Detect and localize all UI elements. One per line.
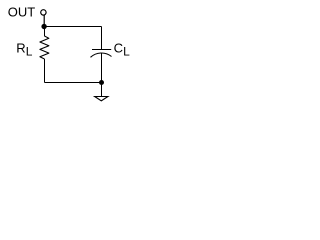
ground (hollow triangle) — [95, 97, 108, 101]
capacitor CL curved bottom plate — [91, 53, 112, 57]
wire top rail — [45, 26, 102, 28]
wire right branch lower lead — [101, 53, 103, 82]
wire left branch upper lead — [44, 27, 46, 37]
resistor RL (zigzag) — [40, 36, 49, 59]
svg-text:L: L — [123, 44, 130, 58]
ground stem wire — [101, 83, 103, 97]
svg-text:OUT: OUT — [8, 4, 36, 19]
wire bottom rail — [45, 82, 102, 84]
wire left branch lower lead — [44, 59, 46, 83]
capacitor CL top plate — [92, 49, 111, 51]
wire right branch upper lead — [101, 27, 103, 50]
junction dot node OUT — [41, 24, 46, 29]
svg-text:R: R — [16, 40, 25, 55]
terminal OUT (open circle) — [41, 10, 46, 15]
junction dot ground node — [99, 80, 104, 85]
svg-text:C: C — [114, 40, 123, 55]
svg-text:L: L — [26, 44, 33, 58]
wire terminal to junction — [43, 15, 45, 26]
